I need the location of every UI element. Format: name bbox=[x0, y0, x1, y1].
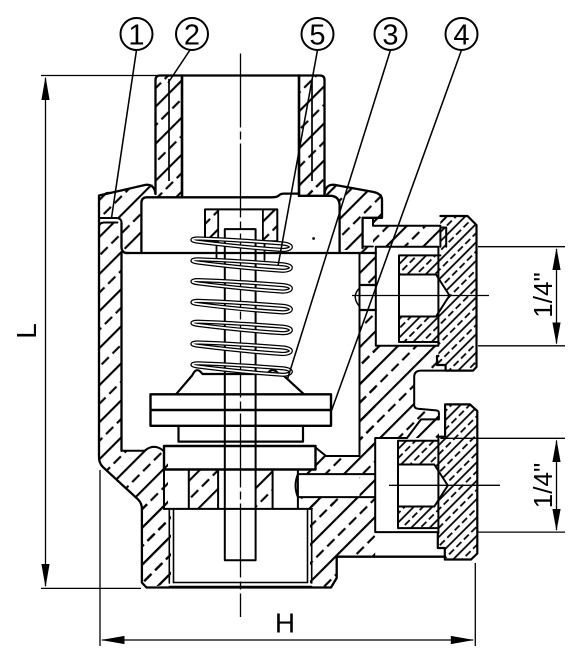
callout circle 3 bbox=[375, 18, 407, 50]
centerline: upper port axis bbox=[352, 295, 489, 297]
hatched: stem guide boss right bbox=[263, 209, 277, 241]
hatched wall: top tube left bbox=[156, 76, 183, 198]
hatched: strip between cavity and lower pocket bbox=[360, 456, 376, 497]
outline: upper insert bbox=[399, 255, 440, 342]
small ink dot bbox=[312, 237, 315, 240]
hatched wall: top tube right bbox=[299, 76, 325, 196]
outline: channel to lower port bbox=[296, 474, 376, 497]
outline: lower flange bbox=[438, 404, 478, 559]
outline: upper passage bbox=[360, 285, 376, 310]
outline: chamber floor line bbox=[126, 252, 376, 254]
leader to item 2 bbox=[168, 50, 190, 83]
svg-text:1/4": 1/4" bbox=[528, 272, 558, 317]
outline: upper port boss top bbox=[373, 218, 446, 247]
arrowhead L top bbox=[41, 77, 49, 101]
callout circle 2 bbox=[176, 18, 208, 50]
outline: lower port pocket right edge bbox=[437, 437, 439, 533]
outline: seat plate bbox=[164, 446, 316, 470]
outline: nut inner thread lines bbox=[169, 509, 311, 583]
dimension H extension right bbox=[474, 563, 476, 646]
dimension 1/4 upper line bbox=[556, 249, 558, 344]
dimension H extension left bbox=[99, 470, 101, 646]
dimension L extension top bbox=[41, 75, 162, 77]
hatched: seat column left bbox=[189, 470, 218, 509]
hatched region: bonnet ring right bbox=[299, 185, 382, 250]
hatched: below gap column bbox=[360, 247, 376, 254]
hatched: lower boss strip bbox=[407, 419, 439, 438]
outline: bonnet inner plug wall left bbox=[122, 223, 130, 253]
outline: cavity right wall bbox=[359, 253, 361, 456]
hatched: body left wall and bottom-left mass bbox=[99, 223, 168, 588]
outline: bore top line bbox=[164, 508, 312, 510]
outline: body wall top edge bbox=[99, 223, 118, 228]
hatched: mass below upper pocket between ports bbox=[360, 346, 439, 451]
outline: tube bore bbox=[182, 76, 299, 198]
arrowhead L bottom bbox=[41, 564, 49, 587]
svg-text:1/4": 1/4" bbox=[528, 463, 558, 508]
outline: between-ports profile bbox=[375, 371, 445, 533]
leader to item 4 bbox=[331, 50, 462, 412]
spring (item 5) bbox=[192, 363, 290, 375]
dimension 1/4 upper extensions bbox=[478, 247, 565, 346]
hatched: stem guide strip right bbox=[256, 470, 273, 509]
hatched: right mass below channel to body bottom bbox=[298, 497, 375, 557]
dimension L line bbox=[45, 78, 47, 586]
hatched: right wall below passage bbox=[360, 310, 376, 456]
outline: bonnet skirt lip left bbox=[99, 218, 122, 223]
outline: bonnet top profile bbox=[99, 185, 382, 248]
outline: stem bbox=[225, 229, 256, 560]
hatched: seat bump left bbox=[145, 447, 164, 451]
dense hatched: lower port insert and flange bbox=[398, 404, 477, 559]
svg-text:3: 3 bbox=[382, 20, 398, 52]
svg-text:1: 1 bbox=[128, 20, 144, 52]
outline: nut bottom double lines bbox=[169, 583, 311, 587]
dense hatched: upper port insert and flange bbox=[399, 216, 477, 371]
outline: gap column bottom bbox=[363, 246, 373, 248]
arrowhead H right bbox=[451, 636, 475, 644]
outline: boss hole inner edges bbox=[217, 209, 265, 260]
svg-text:4: 4 bbox=[453, 20, 469, 52]
outline: upper port pocket bbox=[376, 247, 439, 346]
hatched: upper port boss bbox=[373, 218, 440, 247]
leader to item 3 bbox=[288, 50, 391, 379]
callout circle 1 bbox=[121, 18, 153, 50]
outline: body left wall bbox=[99, 219, 445, 588]
outline: lower insert bbox=[398, 441, 438, 528]
dimension L extension bottom bbox=[41, 587, 141, 589]
outline: top tube bbox=[156, 76, 325, 194]
callout circle 5 bbox=[302, 18, 334, 50]
outline: upper flange bbox=[437, 216, 477, 371]
outline: lower socket bbox=[398, 465, 448, 507]
outline: seat shoulder left with bump bbox=[122, 447, 219, 509]
arrowhead H left bbox=[101, 636, 125, 644]
outline: dome (disc top) bbox=[176, 370, 304, 394]
hatched region: bonnet ring left bbox=[99, 185, 156, 250]
svg-text:2: 2 bbox=[184, 20, 200, 52]
thread lines on top tube bbox=[169, 79, 312, 181]
outline: seat shoulder right bbox=[273, 448, 360, 509]
dimension H line bbox=[102, 639, 473, 641]
arrowhead 1/4 upper top bbox=[552, 248, 560, 270]
svg-text:H: H bbox=[275, 608, 295, 639]
outline: spring chamber bbox=[141, 194, 339, 253]
outline: spacer bbox=[179, 426, 304, 442]
hatched: outlet nut left wall bbox=[142, 503, 171, 588]
hatched: right mass above channel bbox=[298, 448, 360, 474]
dimension 1/4 lower extensions bbox=[440, 438, 565, 532]
dimension 1/4 lower line bbox=[556, 441, 558, 531]
callout circle 4 bbox=[446, 18, 478, 50]
leader to item 5 bbox=[278, 50, 318, 266]
arrowhead 1/4 upper bottom bbox=[552, 323, 560, 345]
leader to item 1 bbox=[112, 50, 137, 218]
centerline: vertical axis bbox=[240, 54, 242, 618]
outline: stem guide boss bbox=[205, 209, 277, 241]
svg-text:L: L bbox=[11, 323, 42, 339]
hatched: outlet nut right wall bbox=[310, 503, 337, 588]
arrowhead 1/4 lower top bbox=[552, 439, 560, 462]
centerline: lower port axis bbox=[389, 484, 500, 486]
arrowhead 1/4 lower bottom bbox=[552, 509, 560, 531]
hatched: right wall above passage bbox=[360, 253, 376, 285]
hatched: stem guide boss left bbox=[205, 209, 218, 241]
outline: upper socket bbox=[399, 275, 450, 317]
svg-text:5: 5 bbox=[309, 20, 325, 52]
outline: plates block bbox=[151, 394, 332, 426]
dense hatched: patch above upper notch bbox=[440, 216, 446, 228]
passage cone tip arc bbox=[355, 288, 359, 307]
